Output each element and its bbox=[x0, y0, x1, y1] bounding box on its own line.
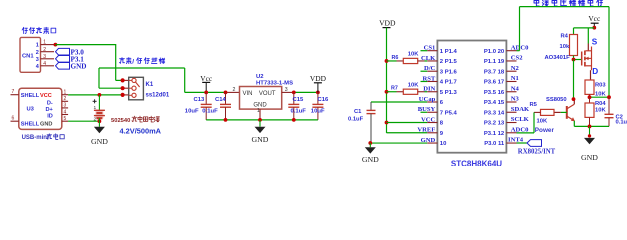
resistor R03 10K bbox=[585, 80, 594, 94]
capacitor C1 0.1uF on UCap bbox=[371, 101, 427, 103]
svg-text:GND: GND bbox=[421, 137, 436, 144]
svg-text:GND: GND bbox=[252, 135, 269, 144]
wire ADC0 net route bbox=[517, 50, 520, 52]
wire Power net riser bbox=[533, 112, 535, 132]
svg-text:C14: C14 bbox=[215, 97, 227, 103]
svg-text:0.1uF: 0.1uF bbox=[202, 108, 218, 114]
rail VIN bbox=[185, 91, 228, 93]
wire U3 GND to battery bottom bbox=[68, 120, 99, 122]
svg-text:4.2V/500mA: 4.2V/500mA bbox=[120, 126, 162, 135]
MCU pin 10 / pin 11 row bbox=[427, 142, 437, 144]
svg-text:P3.1 12: P3.1 12 bbox=[484, 131, 505, 137]
svg-text:U3: U3 bbox=[27, 107, 35, 113]
svg-text:P3.5 16: P3.5 16 bbox=[484, 90, 505, 96]
svg-text:P3.7 18: P3.7 18 bbox=[484, 69, 505, 75]
wire Vcc to R4 and mosfet bbox=[574, 27, 595, 29]
svg-text:CN1: CN1 bbox=[22, 53, 34, 59]
svg-text:D/C: D/C bbox=[424, 65, 436, 72]
svg-text:C16: C16 bbox=[318, 97, 330, 103]
svg-text:P3.0 11: P3.0 11 bbox=[484, 141, 505, 147]
USB connector U3 bbox=[19, 88, 62, 129]
svg-text:N3: N3 bbox=[511, 96, 520, 103]
svg-text:3: 3 bbox=[36, 57, 39, 63]
svg-text:BUSY: BUSY bbox=[418, 106, 436, 113]
capacitor C2 0.1u bbox=[608, 97, 610, 114]
svg-text:7 P5.4: 7 P5.4 bbox=[440, 110, 458, 116]
svg-text:10uF: 10uF bbox=[185, 108, 199, 114]
svg-text:1 P1.4: 1 P1.4 bbox=[440, 49, 458, 55]
svg-text:VDD: VDD bbox=[379, 19, 396, 28]
svg-text:P3.2 13: P3.2 13 bbox=[484, 121, 505, 127]
resistor R4 10k bbox=[573, 28, 575, 35]
svg-text:0.1uF: 0.1uF bbox=[348, 117, 364, 123]
svg-text:UCap: UCap bbox=[419, 96, 436, 103]
MCU pin 5 / pin 16 row bbox=[427, 91, 437, 93]
svg-text:7: 7 bbox=[12, 89, 15, 95]
svg-text:U2: U2 bbox=[256, 74, 264, 80]
U2 VOUT pin bbox=[282, 91, 294, 93]
svg-text:GND: GND bbox=[71, 62, 87, 70]
net flag P3.1 bbox=[56, 56, 70, 63]
junction dot CN1 pin1 bbox=[54, 43, 58, 47]
svg-text:DIN: DIN bbox=[423, 86, 435, 93]
svg-text:STC8H8K64U: STC8H8K64U bbox=[451, 160, 502, 167]
connector CN1 bbox=[20, 37, 41, 72]
ground rail regulator bbox=[206, 119, 318, 121]
svg-text:5: 5 bbox=[64, 116, 67, 122]
MCU pin 3 / pin 18 row bbox=[427, 70, 437, 72]
wire VCC row bbox=[387, 122, 428, 124]
svg-text:10K: 10K bbox=[595, 108, 606, 114]
svg-text:C1: C1 bbox=[354, 109, 362, 115]
gate wire bbox=[574, 59, 583, 61]
svg-text:N4: N4 bbox=[511, 85, 520, 92]
svg-text:GND: GND bbox=[362, 155, 379, 164]
net flag GND bbox=[56, 63, 70, 70]
capacitor C13 10uF bbox=[205, 92, 207, 104]
wire GND row bbox=[370, 142, 427, 144]
svg-text:CLK: CLK bbox=[421, 55, 436, 62]
svg-text:VDD: VDD bbox=[310, 74, 327, 83]
MCU U1 STC8H8K64U box bbox=[437, 41, 506, 153]
svg-text:HT7333-1-MS: HT7333-1-MS bbox=[256, 81, 293, 87]
net flag INT4 RX8025 bbox=[517, 142, 528, 144]
svg-text:10K: 10K bbox=[408, 51, 419, 57]
svg-text:0.1u: 0.1u bbox=[616, 120, 627, 126]
MCU pin 4 / pin 17 row bbox=[427, 80, 437, 82]
title: power voltage sampling circuit (Chinese) bbox=[534, 0, 539, 6]
capacitor C15 0.1uF bbox=[293, 92, 295, 104]
junction dot battery top bbox=[98, 93, 102, 97]
svg-text:Power: Power bbox=[535, 127, 555, 134]
svg-text:D-: D- bbox=[47, 100, 53, 106]
svg-text:2: 2 bbox=[36, 50, 39, 56]
svg-text:AO3401F: AO3401F bbox=[545, 55, 571, 61]
svg-text:3 P1.6: 3 P1.6 bbox=[440, 69, 458, 75]
title: serial programming port (Chinese) bbox=[22, 27, 27, 33]
capacitor C16 10uF bbox=[317, 92, 319, 104]
U3 pin 4 stub bbox=[62, 114, 68, 116]
U2 GND pin bbox=[259, 109, 261, 120]
ground symbol sampling bbox=[589, 126, 591, 135]
svg-text:ss12d01: ss12d01 bbox=[146, 93, 170, 99]
junction dots on VDD rail bbox=[385, 59, 389, 63]
svg-text:INT4: INT4 bbox=[508, 136, 524, 143]
svg-text:R03: R03 bbox=[595, 82, 606, 88]
svg-text:VIN: VIN bbox=[243, 91, 253, 97]
ground symbol regulator bbox=[259, 120, 261, 127]
svg-text:R7: R7 bbox=[391, 86, 398, 92]
drain to R03 bbox=[590, 70, 592, 80]
svg-text:CS2: CS2 bbox=[511, 55, 523, 62]
switch K1 ss12d01 bbox=[99, 87, 123, 89]
bottom rail sampling bbox=[574, 125, 609, 127]
svg-text:10uF: 10uF bbox=[311, 108, 325, 114]
svg-text:N1: N1 bbox=[511, 75, 519, 82]
svg-text:C15: C15 bbox=[293, 97, 305, 103]
svg-text:GND: GND bbox=[253, 102, 267, 108]
svg-text:ID: ID bbox=[47, 114, 53, 120]
svg-text:RST: RST bbox=[422, 75, 435, 82]
svg-text:1: 1 bbox=[257, 108, 260, 114]
svg-text:P1.0 20: P1.0 20 bbox=[484, 49, 505, 55]
svg-text:R04: R04 bbox=[595, 101, 606, 107]
svg-text:502540: 502540 bbox=[111, 118, 130, 124]
svg-text:N2: N2 bbox=[511, 65, 520, 72]
MCU pin 7 / pin 14 row bbox=[427, 111, 437, 113]
svg-text:2: 2 bbox=[43, 47, 46, 53]
svg-text:VCC: VCC bbox=[421, 116, 436, 123]
regulator U2 HT7333-1-MS bbox=[227, 91, 239, 93]
ground battery bbox=[98, 121, 100, 127]
svg-text:P3.4 15: P3.4 15 bbox=[484, 100, 505, 106]
svg-text:3: 3 bbox=[285, 87, 288, 93]
MCU pin 1 / pin 20 row bbox=[427, 50, 437, 52]
resistor R6 10K bbox=[387, 60, 397, 62]
svg-text:SCLK: SCLK bbox=[511, 116, 530, 123]
svg-text:1: 1 bbox=[43, 40, 46, 46]
svg-text:2 P1.5: 2 P1.5 bbox=[440, 59, 458, 65]
svg-text:SDAK: SDAK bbox=[511, 106, 530, 113]
svg-text:VREF: VREF bbox=[417, 127, 435, 134]
ground symbol mcu bbox=[369, 143, 371, 147]
svg-text:1: 1 bbox=[64, 90, 67, 96]
rail VOUT bbox=[294, 91, 318, 93]
svg-text:4 P1.7: 4 P1.7 bbox=[440, 80, 458, 86]
plus sign battery bbox=[93, 100, 97, 102]
svg-text:0.1uF: 0.1uF bbox=[291, 108, 307, 114]
svg-text:CS1: CS1 bbox=[424, 45, 436, 52]
svg-text:USB-mini: USB-mini bbox=[22, 135, 49, 141]
svg-text:10K: 10K bbox=[408, 83, 419, 89]
svg-text:SHELL: SHELL bbox=[21, 121, 40, 127]
svg-text:10K: 10K bbox=[537, 119, 548, 125]
svg-text:R5: R5 bbox=[530, 102, 538, 108]
svg-text:RX8025/INT: RX8025/INT bbox=[518, 149, 556, 156]
svg-text:GND: GND bbox=[40, 121, 52, 127]
svg-text:D+: D+ bbox=[45, 107, 53, 113]
svg-text:Vcc: Vcc bbox=[200, 74, 213, 83]
svg-text:4: 4 bbox=[43, 61, 46, 67]
wire U3 VCC to battery junction and switch bbox=[68, 94, 123, 96]
svg-text:P1.1 19: P1.1 19 bbox=[484, 59, 505, 65]
short stubs wires left labels bbox=[421, 50, 428, 52]
battery BT 502540 bbox=[98, 95, 100, 110]
resistor R7 10K bbox=[387, 91, 397, 93]
svg-text:P3.6 17: P3.6 17 bbox=[484, 80, 505, 86]
svg-text:Vcc: Vcc bbox=[588, 14, 601, 23]
MCU pin 2 / pin 19 row bbox=[427, 60, 437, 62]
CN1 pin 4 stub bbox=[41, 65, 55, 67]
svg-text:4: 4 bbox=[64, 109, 67, 115]
svg-text:10: 10 bbox=[440, 141, 447, 147]
svg-text:VOUT: VOUT bbox=[259, 91, 276, 97]
svg-text:VCC: VCC bbox=[40, 93, 52, 99]
svg-text:SHELL: SHELL bbox=[21, 93, 40, 99]
svg-text:6: 6 bbox=[12, 116, 15, 122]
svg-text:2: 2 bbox=[64, 96, 67, 102]
svg-text:R6: R6 bbox=[392, 55, 399, 61]
svg-text:5 P1.3: 5 P1.3 bbox=[440, 90, 458, 96]
svg-text:GND: GND bbox=[91, 137, 108, 146]
svg-text:/: / bbox=[132, 59, 134, 66]
MCU pin 8 / pin 13 row bbox=[427, 122, 437, 124]
divider node rail bbox=[590, 96, 610, 98]
VDD rail vertical bbox=[386, 28, 388, 133]
U3 pin 3 stub bbox=[62, 107, 68, 109]
svg-text:GND: GND bbox=[581, 153, 598, 162]
svg-text:C13: C13 bbox=[194, 97, 206, 103]
resistor R04 10K bbox=[589, 97, 591, 103]
svg-text:R4: R4 bbox=[561, 34, 569, 40]
svg-text:3: 3 bbox=[64, 103, 67, 109]
MCU pin 6 / pin 15 row bbox=[427, 101, 437, 103]
U3 pin 1 stub bbox=[62, 94, 68, 96]
svg-text:2: 2 bbox=[94, 117, 97, 123]
svg-text:10k: 10k bbox=[560, 44, 570, 50]
svg-text:SS8050: SS8050 bbox=[546, 97, 567, 103]
CN1 pin 1 stub bbox=[41, 44, 55, 46]
svg-text:1: 1 bbox=[94, 105, 97, 111]
MCU pin 9 / pin 12 row bbox=[427, 132, 437, 134]
svg-text:D: D bbox=[592, 67, 598, 76]
svg-text:K1: K1 bbox=[146, 82, 154, 88]
svg-text:3: 3 bbox=[43, 54, 46, 60]
CN1 pin 3 stub bbox=[41, 58, 55, 60]
resistor R5 10K bbox=[541, 109, 555, 115]
title: program/run select (Chinese) bbox=[119, 58, 124, 64]
CN1 pin 2 stub bbox=[41, 51, 55, 53]
svg-text:1: 1 bbox=[36, 43, 39, 49]
net flag P3.0 bbox=[56, 48, 70, 55]
svg-text:S: S bbox=[592, 38, 598, 47]
U3 pin 2 stub bbox=[62, 100, 68, 102]
svg-text:2: 2 bbox=[233, 87, 236, 93]
capacitor C14 0.1uF bbox=[224, 91, 228, 95]
junction dot battery bottom bbox=[98, 119, 102, 123]
wire CN1 pin1 to switch bbox=[55, 44, 115, 46]
U3 shell pins bbox=[11, 94, 19, 96]
wire VREF row bbox=[387, 132, 428, 134]
svg-text:P3.3 14: P3.3 14 bbox=[484, 110, 505, 116]
U3 pin 5 stub bbox=[62, 120, 68, 122]
